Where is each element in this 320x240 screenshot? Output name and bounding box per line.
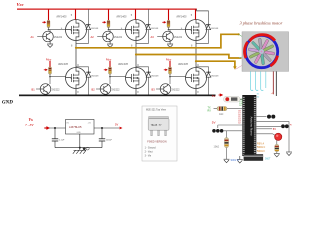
svg-text:560T: 560T: [265, 158, 271, 161]
resistor R9 pulldown: [225, 138, 229, 148]
wire R2 to node: [108, 27, 110, 29]
wire gate 4: [50, 76, 66, 78]
svg-text:3 - Vin: 3 - Vin: [145, 155, 152, 157]
annotation arrow R4: [44, 69, 48, 72]
wire base T4: [36, 88, 40, 90]
pushbutton SW2: [256, 115, 275, 119]
wire diode D1 bottom: [76, 30, 88, 43]
mosfet Q6: [186, 68, 207, 89]
svg-text:2N2222: 2N2222: [112, 89, 121, 91]
pin package leg 2: [158, 130, 160, 136]
capacitor C2: [99, 128, 105, 148]
svg-text:5V: 5V: [115, 123, 118, 127]
wire diode D4 bottom: [88, 78, 90, 95]
wire collector T1: [49, 30, 51, 32]
node ground tie oval: [83, 147, 86, 150]
wire gate 3: [169, 29, 186, 31]
ground right rail: [286, 152, 292, 156]
svg-text:A3: A3: [151, 35, 155, 39]
resistor R8 (series): [214, 107, 243, 111]
wire Vcc to drain Q3: [195, 9, 197, 20]
diode D6: [206, 71, 211, 78]
wire motor hall lead 4: [265, 71, 267, 88]
svg-text:B1: B1: [32, 88, 36, 92]
wire diode D2 top: [147, 9, 149, 24]
svg-text:D2: D2: [238, 123, 240, 125]
diode D4: [86, 71, 91, 78]
wire phase column 1: [75, 41, 77, 68]
wire diode D1 top: [87, 9, 89, 24]
svg-text:1N4148: 1N4148: [211, 28, 219, 30]
wire diode D3 bottom: [196, 30, 208, 43]
wire collector T5: [109, 77, 111, 84]
wire U1 output: [94, 127, 119, 129]
wire R7 to board: [240, 98, 242, 100]
annotation arrow R1: [42, 21, 46, 24]
ground T2 emitter: [107, 42, 113, 48]
resistor R5: [109, 67, 112, 74]
transistor T4: [40, 84, 51, 95]
svg-text:1N4148: 1N4148: [151, 75, 159, 77]
wire gate 6: [170, 76, 186, 78]
wire supply input: [49, 127, 66, 129]
mosfet Q5: [126, 68, 147, 89]
wire supply ground bus: [55, 134, 102, 150]
wire motor hall lead 2: [256, 71, 259, 90]
node phase 1 junction: [75, 47, 77, 49]
wire SW1 to R9: [226, 131, 228, 138]
svg-text:Vcc: Vcc: [46, 57, 52, 61]
wire base T3: [157, 36, 163, 38]
svg-text:D: D: [77, 64, 79, 67]
transistor T3: [163, 31, 174, 42]
svg-text:2 - Vout: 2 - Vout: [145, 150, 153, 153]
svg-text:560Ω C: 560Ω C: [257, 146, 265, 149]
svg-text:560Ω F: 560Ω F: [257, 150, 265, 153]
node gate junction 5: [109, 76, 111, 78]
svg-text:5V: 5V: [212, 94, 216, 98]
pushbutton SW3: [256, 124, 288, 128]
svg-text:IRF1405: IRF1405: [118, 62, 129, 66]
wire base T5: [96, 88, 100, 90]
wire R9 to ground: [226, 148, 228, 160]
led LED1: [275, 133, 282, 140]
ground SW1: [224, 159, 230, 163]
wire board 5V right: [256, 128, 272, 130]
wire collector T6: [169, 77, 171, 84]
node phase 1 terminal: [238, 33, 240, 35]
wire source Q6 to GND rail: [195, 89, 197, 96]
annotation package body: [148, 119, 169, 131]
node phase 3 junction: [195, 60, 197, 62]
usb connector U2: [244, 154, 264, 161]
svg-text:2N2222: 2N2222: [52, 89, 61, 91]
annotation arrow R6: [164, 69, 168, 72]
svg-text:78L05 .TY: 78L05 .TY: [151, 124, 162, 127]
svg-text:D: D: [197, 64, 199, 67]
wire R4 to node: [49, 74, 51, 77]
pushbutton SW1: [212, 129, 223, 133]
wire GND rail: [19, 95, 216, 97]
mosfet Q3: [186, 20, 207, 41]
svg-text:Vcc: Vcc: [106, 57, 112, 61]
svg-text:5V: 5V: [273, 127, 276, 131]
svg-text:7 - 8V: 7 - 8V: [25, 123, 34, 127]
board Arduino Nano U2: [242, 95, 256, 156]
svg-text:3 phase brushless motor: 3 phase brushless motor: [240, 21, 283, 26]
capacitor C1: [52, 128, 58, 148]
pin pads U2 right: [254, 97, 256, 155]
svg-text:2N2222: 2N2222: [54, 37, 63, 39]
wire Vcc stub to R1: [48, 9, 50, 20]
svg-text:1 - Ground: 1 - Ground: [145, 146, 157, 149]
diode D3: [206, 24, 211, 31]
svg-text:Vcc: Vcc: [17, 2, 24, 7]
wire Vcc stub to R3: [168, 9, 170, 20]
wire Vcc rail: [17, 9, 197, 10]
transistor T1: [43, 31, 54, 42]
wire diode D5 bottom: [148, 78, 150, 95]
wire phase 3 motor lead (pink): [236, 57, 258, 70]
ground LED1: [274, 153, 280, 157]
svg-text:Vx: Vx: [29, 118, 34, 122]
resistor R3: [167, 20, 170, 27]
pin labels U2 left green: [239, 99, 242, 107]
resistor R6: [169, 67, 172, 74]
annotation package tab: [149, 117, 169, 119]
svg-text:Vcc: Vcc: [166, 57, 172, 61]
pin labels U2 left red: [238, 111, 240, 125]
node ground bus junction: [79, 147, 81, 149]
svg-text:IRF1405: IRF1405: [178, 62, 189, 66]
svg-text:1N4148: 1N4148: [91, 75, 99, 77]
node gate junction 1: [48, 29, 50, 31]
svg-text:1kΩ: 1kΩ: [219, 113, 224, 116]
resistor R2: [107, 20, 110, 27]
wire diode D2 bottom: [136, 30, 148, 43]
wire collector T2: [109, 30, 111, 32]
pin pads U2 left: [243, 97, 245, 155]
wire board to LED: [256, 134, 275, 136]
annotation arrow 5V: [219, 94, 223, 96]
svg-text:A2: A2: [91, 35, 95, 39]
wire phase 2 motor lead (cyan): [239, 53, 258, 58]
annotation arrow 5V output: [120, 127, 123, 130]
svg-text:2N2222: 2N2222: [114, 37, 123, 39]
wire phase 2 orange: [136, 55, 242, 59]
wire drain to diode D5: [136, 67, 149, 72]
svg-text:1N4148: 1N4148: [211, 75, 219, 77]
transistor T5: [100, 84, 111, 95]
wire phase 3 orange: [196, 61, 235, 67]
wire phase column 2: [135, 41, 137, 68]
wire Vcc stub R5: [109, 61, 111, 67]
ground U2 bottom-left: [237, 156, 243, 163]
wire board right long: [256, 122, 289, 152]
ground earth symbol supply: [73, 150, 86, 154]
transistor T6: [160, 84, 171, 95]
annotation arrow R2: [102, 21, 106, 24]
node gate junction 3: [168, 29, 170, 31]
svg-text:IRF1405: IRF1405: [57, 15, 68, 19]
annotation box regulator top view: [142, 106, 177, 161]
annotation arrow R5: [104, 69, 108, 72]
svg-text:A1: A1: [31, 35, 35, 39]
wire R1 to node: [48, 27, 50, 29]
pin package leg 1: [151, 130, 153, 136]
diode D1: [86, 24, 91, 31]
svg-text:IRF1405: IRF1405: [58, 62, 69, 66]
wire Vcc to drain Q2: [135, 9, 137, 20]
node phase 3 arrowhead: [233, 66, 237, 69]
svg-text:D9: D9: [239, 105, 241, 107]
transistor T2: [103, 31, 114, 42]
svg-text:5V: 5V: [212, 120, 216, 124]
wire gate 5: [110, 76, 126, 78]
mosfet Q2: [126, 20, 147, 41]
wire phase column 3: [195, 41, 197, 68]
wire Vcc to drain Q1: [75, 9, 77, 20]
svg-text:D: D: [137, 64, 139, 67]
wire drain to diode D4: [76, 67, 89, 72]
wire source Q5 to GND rail: [135, 89, 137, 96]
svg-text:FIXED VERSION: FIXED VERSION: [147, 141, 167, 144]
wire Vcc stub to R2: [108, 9, 110, 20]
resistor R7 (5V feed): [224, 96, 241, 102]
regulator U1 body: [66, 120, 95, 135]
ground T3 emitter: [167, 42, 173, 48]
resistor R10: [275, 144, 279, 151]
svg-text:SW1 D: SW1 D: [231, 158, 239, 162]
svg-text:REV A: REV A: [257, 142, 264, 145]
motor M1 rotor: [248, 38, 275, 65]
node supply input junction: [54, 127, 56, 129]
wire R10 to ground: [276, 152, 278, 154]
node gate junction 6: [169, 76, 171, 78]
wire phase 1 motor lead (green): [239, 34, 258, 46]
wire drain to diode D6: [196, 67, 209, 72]
diode D5: [146, 71, 151, 78]
motor M1 stator ring: [245, 35, 278, 68]
wire collector T4: [49, 77, 51, 84]
svg-text:10kΩ: 10kΩ: [214, 146, 220, 149]
node U1 output junction: [101, 127, 103, 129]
wire source Q4 to GND rail: [75, 89, 77, 96]
svg-text:1N4148: 1N4148: [151, 28, 159, 30]
svg-text:IRF1405: IRF1405: [117, 15, 128, 19]
svg-text:Vin: Vin: [66, 122, 69, 124]
annotation arrow supply input: [44, 126, 50, 130]
wire base T1: [37, 36, 43, 38]
svg-text:GND: GND: [77, 132, 82, 134]
resistor R4: [49, 67, 52, 74]
wire R5 to node: [109, 74, 111, 77]
wire R3 to node: [168, 27, 170, 29]
svg-text:Arduino Nano: Arduino Nano: [250, 117, 254, 136]
svg-text:100uF: 100uF: [106, 140, 113, 142]
svg-text:0.1uF: 0.1uF: [59, 140, 65, 142]
svg-text:RX: RX: [208, 109, 212, 112]
svg-text:GND: GND: [2, 100, 13, 105]
wire motor sensor +5v lead: [272, 71, 274, 94]
resistor R1: [47, 20, 50, 27]
pin package leg 3: [165, 130, 167, 136]
wire phase 1 orange: [76, 34, 238, 48]
wire SW1 to board: [218, 125, 243, 131]
wire motor hall lead 3: [261, 71, 264, 90]
node phase 2 junction: [135, 53, 137, 55]
annotation arrow R3: [162, 21, 166, 24]
ground T1 emitter: [47, 42, 53, 48]
wire LED to R10: [276, 140, 278, 144]
mosfet Q1: [66, 20, 87, 41]
svg-text:B2: B2: [92, 88, 96, 92]
wire base T2: [97, 36, 103, 38]
svg-text:2N2222: 2N2222: [174, 37, 183, 39]
wire motor sensor gnd lead: [275, 71, 277, 96]
motor M1 body: [242, 32, 289, 72]
wire diode D3 top: [207, 11, 209, 24]
svg-text:IRF1405: IRF1405: [177, 15, 188, 19]
svg-text:MJE-221 Top View: MJE-221 Top View: [146, 109, 166, 112]
svg-text:LM78L05: LM78L05: [69, 125, 82, 129]
diode D2: [146, 24, 151, 31]
wire: [0, 0, 300, 168]
wire rail extension to D3: [197, 9, 209, 11]
wire collector T3: [169, 30, 171, 32]
node gate junction 2: [108, 29, 110, 31]
node gate junction 4: [49, 76, 51, 78]
mosfet Q4: [66, 68, 87, 89]
wire base T6: [156, 88, 160, 90]
wire Vcc stub R4: [49, 61, 51, 67]
wire motor hall lead 1: [251, 71, 254, 90]
svg-text:2N2222: 2N2222: [172, 89, 181, 91]
wire gate 2: [109, 29, 126, 31]
svg-text:1N4148: 1N4148: [91, 28, 99, 30]
svg-text:B3: B3: [152, 88, 156, 92]
wire gate 1: [49, 29, 66, 31]
wire diode D6 bottom: [208, 78, 210, 95]
wire Vcc stub R6: [169, 61, 171, 67]
wire R6 to node: [169, 74, 171, 77]
